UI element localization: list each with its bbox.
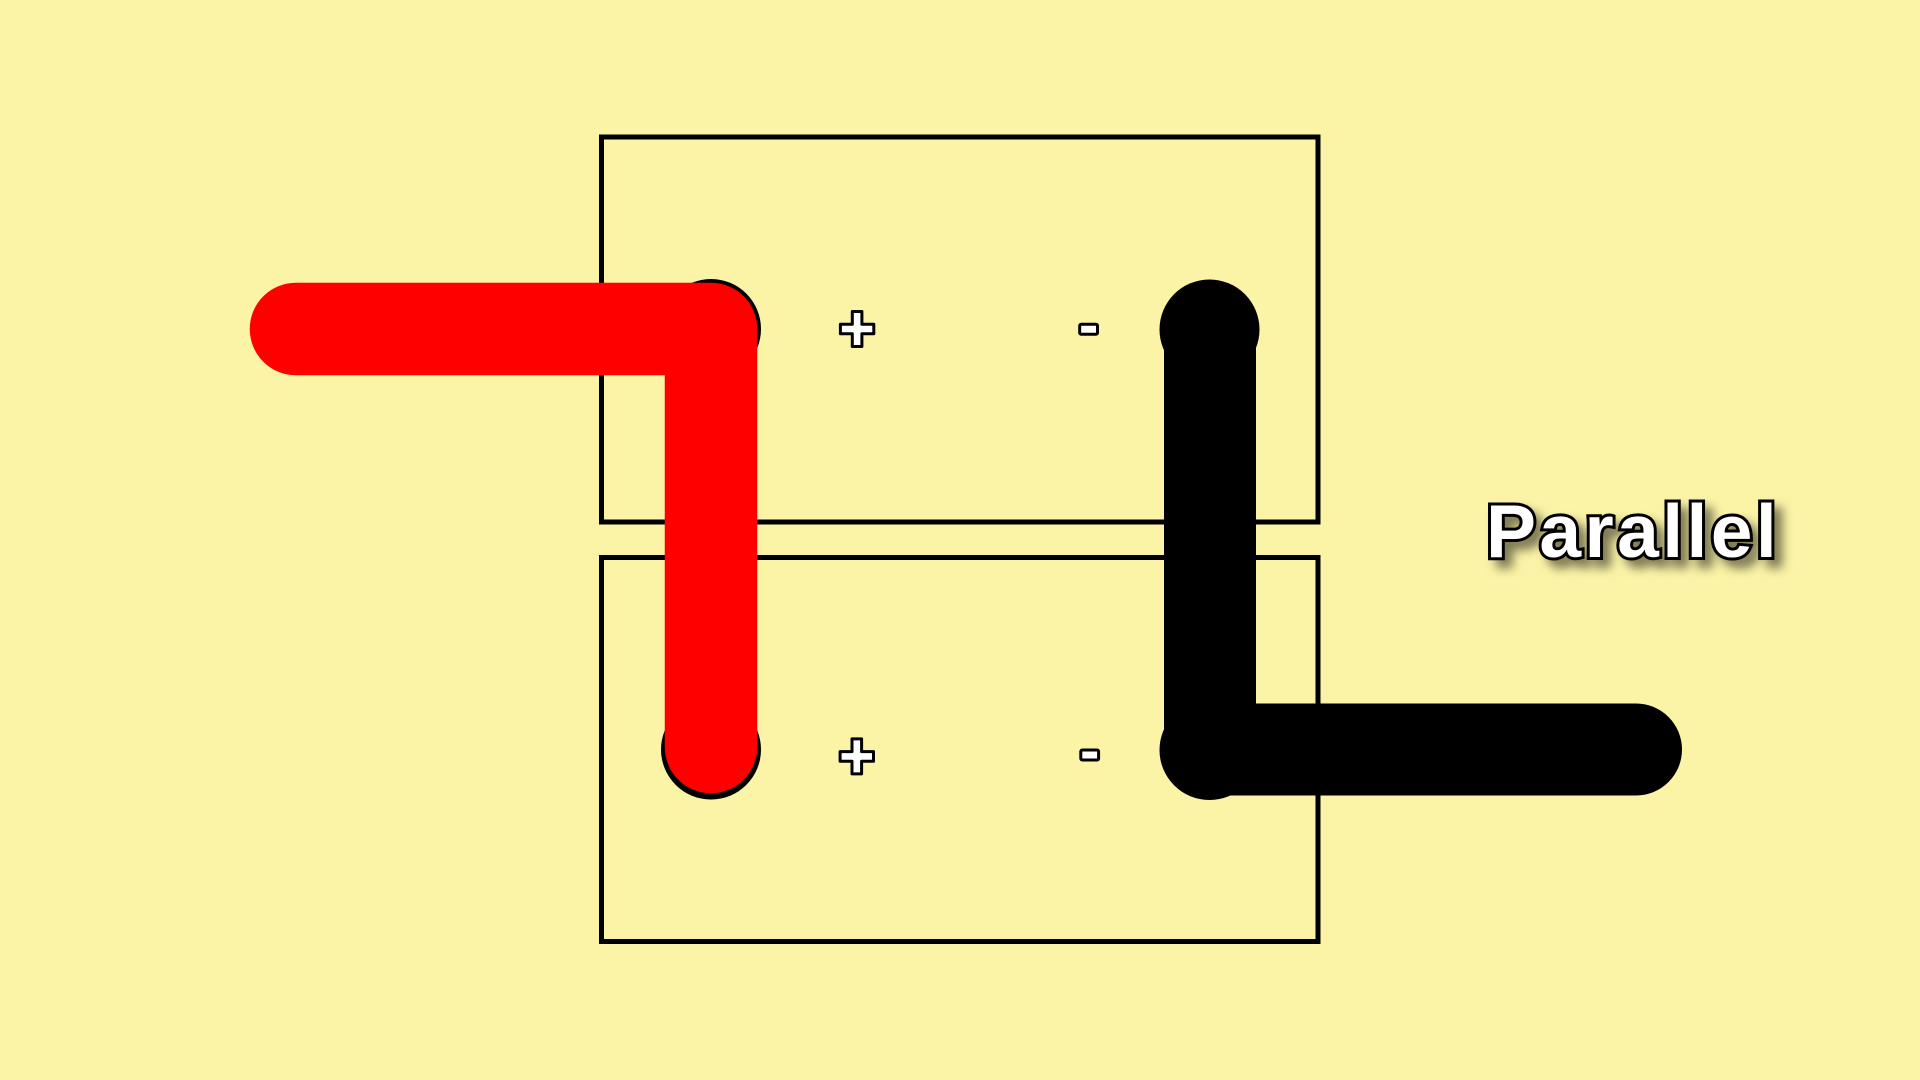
svg-text:Parallel: Parallel	[1486, 489, 1780, 573]
